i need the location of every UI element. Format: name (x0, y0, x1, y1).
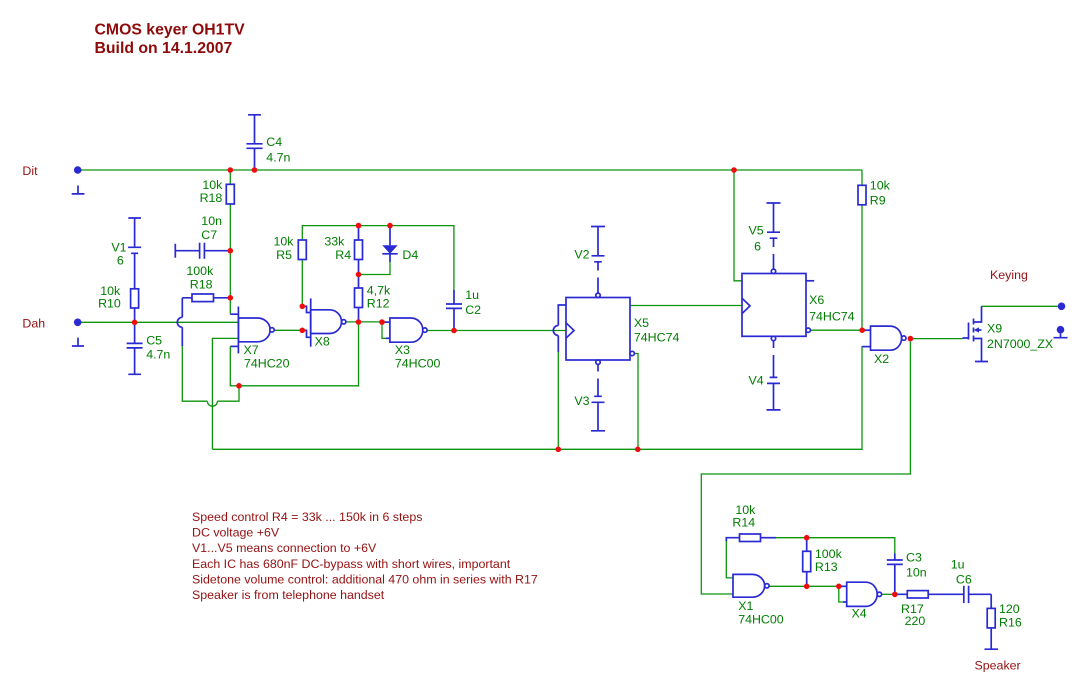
resistor R4 (33k) (324, 226, 362, 275)
junction rail/X5-D (556, 447, 562, 453)
svg-text:1u: 1u (465, 288, 479, 302)
svg-text:R10: R10 (98, 297, 121, 311)
svg-text:10n: 10n (906, 566, 927, 580)
svg-text:2N7000_ZX: 2N7000_ZX (987, 337, 1053, 351)
svg-text:Each IC has 680nF DC-bypass w: Each IC has 680nF DC-bypass with short w… (192, 557, 511, 571)
junction R4/D4/R12 (356, 272, 362, 278)
svg-text:X8: X8 (315, 335, 330, 349)
svg-text:CMOS keyer OH1TV: CMOS keyer OH1TV (95, 21, 246, 38)
svg-text:120: 120 (999, 602, 1020, 616)
wire Dit rail (81, 169, 862, 171)
wire X6 notQ output to X2 input (810, 329, 870, 331)
junction X2 output (908, 336, 914, 342)
junction rail/X5-notQ (635, 447, 641, 453)
title text (95, 21, 246, 57)
wire X7 pin3 down to bottom rail (212, 338, 238, 449)
svg-text:100k: 100k (186, 264, 214, 278)
capacitor C7 (10n) (175, 214, 230, 259)
svg-text:X3: X3 (395, 343, 410, 357)
svg-text:74HC00: 74HC00 (738, 612, 784, 626)
junction 100k/R18 (228, 295, 234, 301)
resistor R18 (100k) horizontal (182, 264, 230, 302)
diode D4 (382, 226, 418, 262)
wire X5 D input down to bottom rail (553, 305, 566, 449)
svg-text:100k: 100k (815, 547, 843, 561)
svg-text:C3: C3 (906, 551, 922, 565)
svg-text:4.7n: 4.7n (146, 348, 170, 362)
svg-text:R18: R18 (200, 191, 223, 205)
capacitor C3 (10n) (887, 551, 927, 595)
svg-text:74HC74: 74HC74 (634, 330, 680, 344)
nand gate X1 (74HC00) (733, 574, 784, 626)
svg-text:R16: R16 (999, 615, 1022, 629)
wire X5 Q output to X6 clock (630, 305, 742, 307)
svg-text:C5: C5 (146, 334, 162, 348)
svg-text:10n: 10n (201, 214, 222, 228)
nand gate X7 (74HC20) (238, 307, 289, 371)
wire oscillator top rail (302, 226, 454, 290)
terminal Dit (72, 166, 85, 194)
wire feedback node to X8 output net (239, 322, 359, 386)
wire bottom feedback rail to X2 lower input (212, 347, 870, 450)
power V4 (749, 341, 781, 410)
wire X9 drain to keying terminal (982, 305, 1058, 307)
resistor R13 (100k) (803, 538, 843, 587)
svg-text:R18: R18 (190, 278, 213, 292)
svg-text:6: 6 (754, 239, 761, 253)
wire X2 output down to sidetone oscillator (701, 341, 910, 594)
svg-text:X1: X1 (738, 599, 753, 613)
svg-text:V1...V5 means connection to +6: V1...V5 means connection to +6V (192, 541, 377, 555)
resistor R14 (10k) (732, 503, 776, 542)
resistor R16 (120) (985, 602, 1022, 649)
junction rail/R4 (356, 223, 362, 229)
resistor R12 (4,7k) (355, 275, 392, 322)
svg-text:R12: R12 (367, 296, 390, 310)
junction R14/R13/C3 net (804, 535, 810, 541)
wire R5 to X8 upper input (302, 260, 310, 313)
wire 100k R18 left lead down across Dah (177, 298, 239, 406)
svg-text:V5: V5 (749, 224, 764, 238)
junction X3 input (379, 319, 385, 325)
resistor R9 (10k) (858, 178, 891, 207)
wire D4 cathode to R4/R12 junction (359, 262, 391, 275)
power V5 (6) (749, 203, 781, 269)
wire X3 input jog (382, 322, 390, 338)
svg-text:Build on 14.1.2007: Build on 14.1.2007 (95, 40, 233, 57)
svg-text:74HC20: 74HC20 (244, 356, 290, 370)
svg-text:C6: C6 (956, 573, 972, 587)
svg-text:X4: X4 (852, 607, 867, 621)
svg-text:Speed control R4 = 33k ... 150: Speed control R4 = 33k ... 150k in 6 ste… (192, 510, 422, 524)
terminal Keying drain (1058, 303, 1066, 311)
resistor R17 (220) (895, 591, 963, 629)
svg-text:R13: R13 (815, 560, 838, 574)
power V2 (574, 227, 605, 293)
wire X3 output to X5 clock (427, 330, 566, 332)
svg-text:10k: 10k (274, 234, 295, 248)
nand gate X8 (311, 298, 346, 348)
junction feedback node (236, 383, 242, 389)
svg-text:DC voltage +6V: DC voltage +6V (192, 526, 280, 540)
wire X2 upper input stub (862, 329, 870, 331)
wire X8 output to X3 input (346, 321, 382, 323)
junction C2/clock net (451, 328, 457, 334)
wire Dit to X6 D input (734, 170, 742, 281)
wire oscillator top net R14 to C3 (776, 538, 895, 554)
svg-text:X7: X7 (244, 343, 259, 357)
notes text block (192, 510, 538, 602)
junction X8 out/R12/feedback (356, 319, 362, 325)
svg-text:X5: X5 (634, 316, 649, 330)
svg-text:R4: R4 (335, 248, 351, 262)
mosfet X9 (2N7000_ZX) (963, 306, 1054, 361)
junction R5/X8 input (300, 304, 306, 310)
junction Dit/C4 (252, 167, 258, 173)
nand gate X2 (862, 326, 906, 366)
junction Dah/R10 (132, 320, 138, 326)
svg-text:Speaker is from telephone hand: Speaker is from telephone handset (192, 588, 385, 602)
wire X7 pin4 to feedback node (230, 346, 239, 385)
terminal Dah (72, 319, 84, 347)
svg-text:X6: X6 (809, 293, 824, 307)
svg-text:220: 220 (905, 614, 926, 628)
svg-text:Dah: Dah (22, 317, 45, 331)
power V1 (6) (111, 218, 141, 289)
resistor R18 (10k) top (200, 178, 235, 205)
resistor R10 (10k) (98, 284, 139, 322)
junction X7 out/X8 input (300, 328, 306, 334)
svg-text:10k: 10k (870, 178, 891, 192)
svg-text:R9: R9 (870, 193, 886, 207)
junction X4 out/C3/R17 (892, 592, 898, 598)
wire Dit to R18 and X7 pin1 (230, 170, 238, 314)
svg-text:Keying: Keying (990, 268, 1028, 282)
junction Dit/R18 (228, 167, 234, 173)
junction C7/R18 (228, 248, 234, 254)
svg-text:X9: X9 (987, 322, 1002, 336)
capacitor C6 (1u) (951, 558, 992, 609)
nand gate X4 (847, 582, 882, 620)
power V3 (574, 365, 605, 431)
svg-text:74HC00: 74HC00 (395, 357, 441, 371)
junction X4 input (836, 584, 842, 590)
wire X4 input jog (839, 586, 847, 602)
svg-text:Speaker: Speaker (975, 659, 1021, 673)
wire X5 notQ to bottom rail (634, 354, 638, 450)
junction rail/D4 (387, 223, 393, 229)
flip-flop X5 (74HC74) (566, 293, 679, 364)
svg-text:C4: C4 (266, 135, 282, 149)
nand gate X3 (74HC00) (390, 318, 441, 371)
svg-text:D4: D4 (402, 248, 418, 262)
wire X1 output to X4 input (769, 585, 839, 587)
svg-text:X2: X2 (874, 352, 889, 366)
svg-text:R14: R14 (732, 515, 755, 529)
resistor R5 (10k) (274, 234, 307, 261)
svg-text:6: 6 (117, 253, 124, 267)
junction R9/X6 out/X2 in (859, 327, 865, 333)
wire X7 output to X8 input (274, 330, 311, 337)
svg-text:V2: V2 (574, 248, 589, 262)
junction Dit/X6-D (731, 167, 737, 173)
capacitor C2 (1u) (446, 288, 481, 329)
svg-text:Dit: Dit (22, 164, 38, 178)
svg-text:1u: 1u (951, 558, 965, 572)
wire Dit to R9 to X2 input (861, 170, 863, 330)
svg-text:4,7k: 4,7k (367, 283, 391, 297)
wire X4 output to R17 (882, 593, 895, 595)
svg-text:R5: R5 (276, 248, 292, 262)
svg-text:Sidetone volume control: addit: Sidetone volume control: additional 470 … (192, 572, 538, 586)
flip-flop X6 (74HC74) (742, 269, 855, 341)
svg-text:10k: 10k (202, 178, 223, 192)
wire Dah rail (81, 321, 238, 323)
svg-text:74HC74: 74HC74 (809, 309, 855, 323)
wire X2 output to X9 gate (913, 338, 963, 340)
svg-text:4.7n: 4.7n (266, 151, 290, 165)
junction R13/X1 out (804, 584, 810, 590)
terminal Keying return (1054, 326, 1068, 338)
svg-text:V3: V3 (574, 394, 589, 408)
svg-text:C2: C2 (465, 303, 481, 317)
wire R14 left lead to X1 upper input (726, 538, 739, 578)
svg-text:33k: 33k (324, 234, 345, 248)
svg-text:V4: V4 (749, 374, 764, 388)
svg-text:C7: C7 (201, 228, 217, 242)
capacitor C4 (4.7n) (246, 115, 290, 169)
capacitor C5 (4.7n) (127, 322, 171, 374)
